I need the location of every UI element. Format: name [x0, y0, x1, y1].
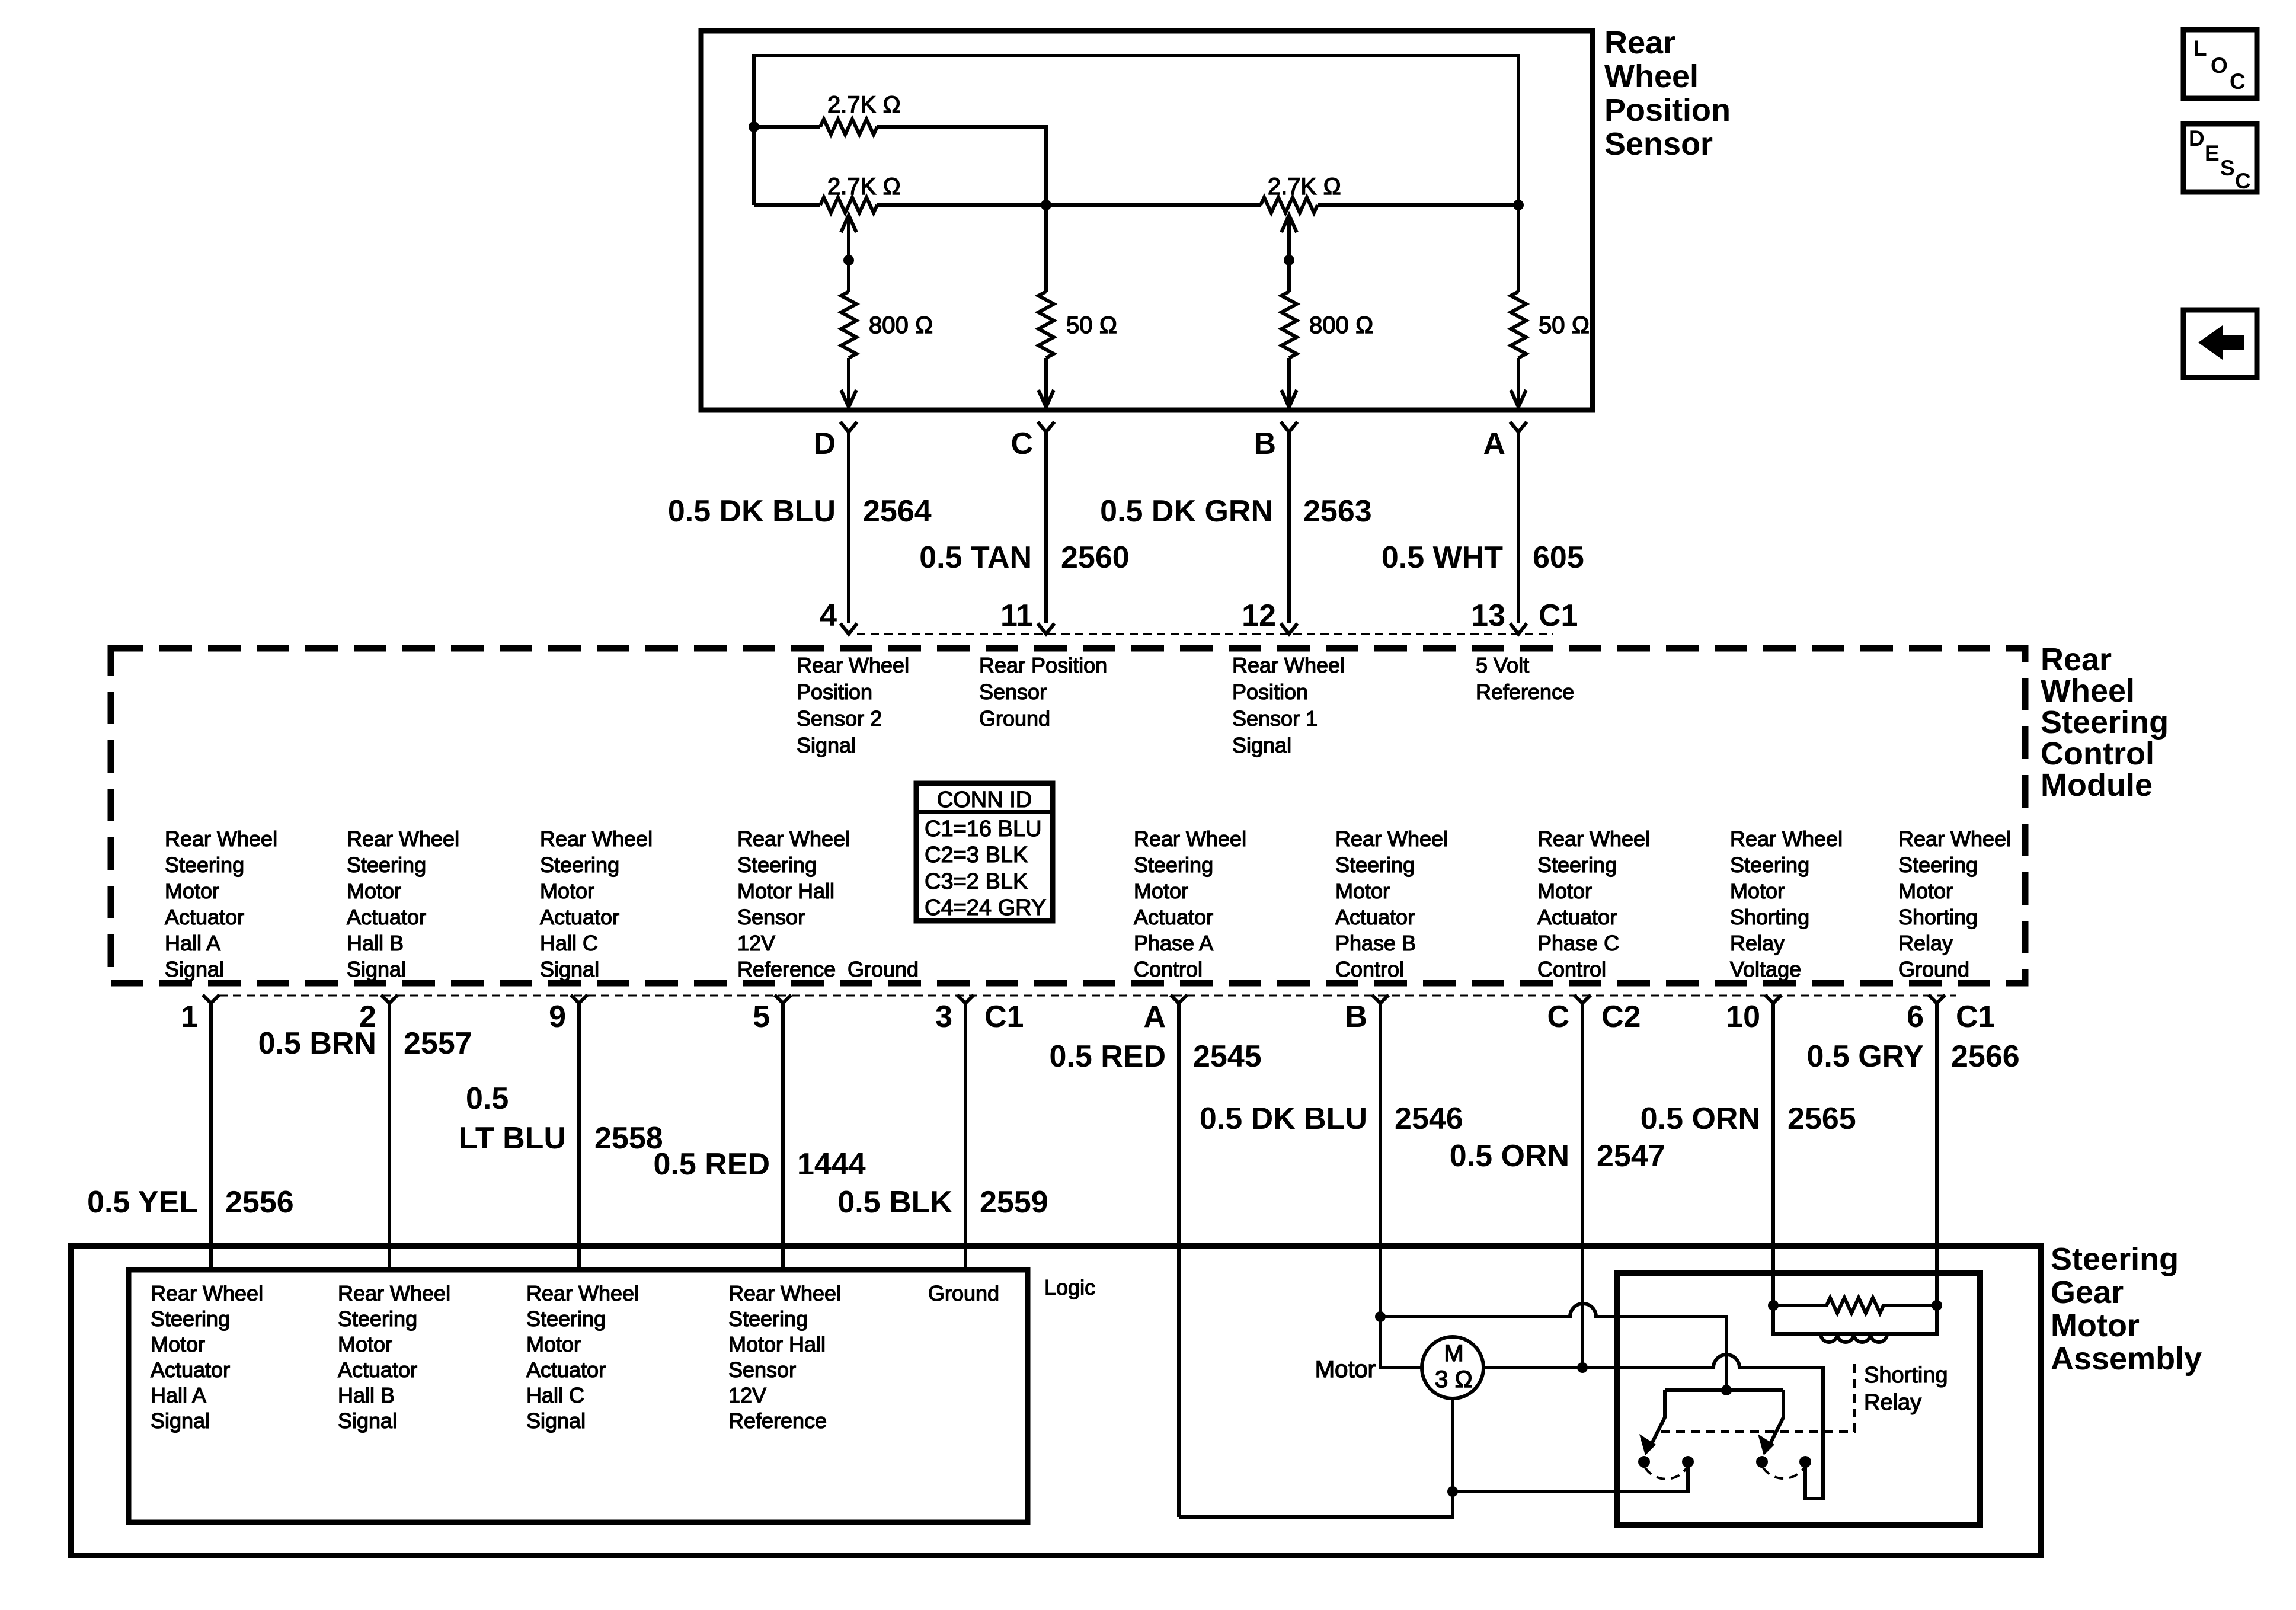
- svg-text:Motor: Motor: [526, 1332, 581, 1356]
- wire: relay switch T-bar: [1665, 1388, 1783, 1392]
- svg-text:Signal: Signal: [797, 733, 856, 757]
- wire: row1 segment right + drop to row2: [877, 127, 1046, 205]
- svg-text:A: A: [1483, 427, 1505, 461]
- wire: phase B to relay common (hops over wire C): [1380, 1304, 1726, 1390]
- svg-text:12: 12: [1242, 598, 1276, 633]
- svg-text:Steering: Steering: [737, 853, 817, 877]
- svg-text:C: C: [1011, 427, 1033, 461]
- wire: C branch lower + down arrow: [1038, 358, 1054, 407]
- node: relay coil left junction: [1768, 1300, 1779, 1311]
- svg-text:Signal: Signal: [526, 1409, 586, 1433]
- svg-text:Rear Wheel: Rear Wheel: [347, 827, 459, 851]
- svg-text:Signal: Signal: [540, 957, 599, 981]
- label: Motor: [1315, 1356, 1376, 1382]
- svg-text:Rear Wheel: Rear Wheel: [1730, 827, 1843, 851]
- svg-text:Rear Wheel: Rear Wheel: [737, 827, 850, 851]
- resistor 2.7K (row2 left): [820, 197, 877, 213]
- node: relay switch common: [1721, 1385, 1732, 1395]
- label: logic pin 9 (RWS Motor Actuator Hall C Signal): [526, 1281, 639, 1433]
- node: switch 1 contact right: [1682, 1456, 1694, 1468]
- wire 2547 (0.5 ORN, pin C to motor assembly): [1450, 1003, 1665, 1368]
- resistor 800 ohm (B branch): [1281, 292, 1297, 358]
- label: pin 13 function (5 Volt Reference): [1476, 653, 1574, 704]
- svg-text:Hall A: Hall A: [165, 931, 220, 955]
- wire 605 (0.5 WHT, A to module pin 13): [1382, 432, 1584, 623]
- node: junction on B wiper: [1284, 255, 1294, 265]
- svg-text:12V: 12V: [737, 931, 775, 955]
- connector pin 3 (module bottom) + C1: [935, 995, 1024, 1034]
- svg-text:A: A: [1143, 1000, 1166, 1034]
- svg-text:Logic: Logic: [1044, 1275, 1095, 1299]
- svg-text:Wheel: Wheel: [2041, 673, 2135, 709]
- label: 2.7K ohm (row1): [827, 92, 901, 118]
- svg-text:Control: Control: [1134, 957, 1203, 981]
- inductor: relay coil: [1773, 1305, 1937, 1342]
- box: Steering Gear Motor Assembly: [71, 1246, 2041, 1555]
- svg-text:Ground: Ground: [1898, 957, 1969, 981]
- label: pin 10 function (RWS Motor Shorting Relay Voltage): [1730, 827, 1843, 981]
- connector pin D (sensor): [813, 422, 857, 461]
- svg-text:Hall A: Hall A: [151, 1383, 206, 1407]
- svg-text:2556: 2556: [225, 1185, 294, 1219]
- wire 2556 (0.5 YEL, pin 1 to logic): [87, 1003, 294, 1270]
- wire 2546 (0.5 DK BLU, pin B to motor assembly): [1200, 1003, 1463, 1317]
- connector pin B (module bottom): [1345, 995, 1389, 1034]
- svg-text:605: 605: [1533, 540, 1584, 575]
- label: Steering Gear Motor Assembly title: [2051, 1241, 2202, 1377]
- label: pin 4 function (Rear Wheel Position Sensor 2 Signal): [797, 653, 909, 757]
- connector pin 11 (module top): [1000, 598, 1054, 634]
- svg-text:Steering: Steering: [1134, 853, 1213, 877]
- svg-text:Rear: Rear: [2041, 642, 2112, 677]
- svg-text:C4=24 GRY: C4=24 GRY: [925, 895, 1046, 920]
- svg-text:4: 4: [820, 598, 837, 633]
- wire: motor right to relay contact (hops over relay common drop): [1582, 1355, 1823, 1499]
- label: pin 5 function (RWS Motor Hall Sensor 12V Reference): [737, 827, 850, 981]
- svg-text:Actuator: Actuator: [165, 905, 244, 929]
- svg-text:Gear: Gear: [2051, 1275, 2124, 1310]
- label: logic pin 5 (RWS Motor Hall Sensor 12V Reference): [728, 1281, 841, 1433]
- wire 2560 (0.5 TAN, C to module pin 11): [919, 432, 1129, 623]
- svg-text:Sensor 1: Sensor 1: [1232, 706, 1318, 731]
- wire: motor bottom lead: [1451, 1398, 1454, 1491]
- svg-text:Control: Control: [2041, 736, 2154, 772]
- svg-text:B: B: [1253, 427, 1276, 461]
- svg-text:Hall C: Hall C: [540, 931, 598, 955]
- label: logic pin 2 (RWS Motor Actuator Hall B Signal): [338, 1281, 450, 1433]
- svg-text:2547: 2547: [1597, 1139, 1665, 1173]
- svg-text:Signal: Signal: [165, 957, 224, 981]
- svg-text:Motor: Motor: [2051, 1308, 2140, 1343]
- label: pin 9 function (RWS Motor Actuator Hall C Signal): [540, 827, 653, 981]
- svg-text:Rear Wheel: Rear Wheel: [1537, 827, 1650, 851]
- svg-text:C: C: [1547, 1000, 1569, 1034]
- svg-text:Rear Wheel: Rear Wheel: [1134, 827, 1246, 851]
- svg-text:0.5 DK GRN: 0.5 DK GRN: [1100, 494, 1273, 529]
- dashed contact arc (switch 1): [1645, 1468, 1687, 1479]
- svg-text:Steering: Steering: [728, 1307, 808, 1331]
- svg-text:Steering: Steering: [540, 853, 619, 877]
- label: pin 3 function (Ground): [848, 957, 919, 981]
- dashed contact arc (switch 2): [1763, 1468, 1804, 1478]
- svg-text:Ground: Ground: [848, 957, 919, 981]
- svg-text:5 Volt: 5 Volt: [1476, 653, 1529, 677]
- svg-text:D: D: [2189, 126, 2205, 151]
- svg-text:Motor: Motor: [338, 1332, 392, 1356]
- connector pin B (sensor): [1253, 422, 1297, 461]
- svg-text:2.7K Ω: 2.7K Ω: [1268, 174, 1341, 200]
- svg-text:C: C: [2230, 69, 2246, 94]
- svg-text:Motor: Motor: [165, 879, 219, 903]
- resistor 50 ohm (A branch): [1511, 292, 1526, 358]
- wire: phase A routing to motor bottom: [1179, 1491, 1453, 1517]
- node: switch 2 contact right: [1799, 1456, 1811, 1468]
- svg-text:Reference: Reference: [737, 957, 836, 981]
- svg-text:Relay: Relay: [1730, 931, 1785, 955]
- svg-text:Ground: Ground: [928, 1281, 999, 1305]
- svg-text:2.7K Ω: 2.7K Ω: [827, 174, 901, 200]
- svg-text:0.5 BLK: 0.5 BLK: [837, 1185, 952, 1219]
- svg-text:Rear Position: Rear Position: [979, 653, 1107, 677]
- svg-text:O: O: [2211, 53, 2228, 78]
- svg-text:C3=2 BLK: C3=2 BLK: [925, 869, 1028, 894]
- connector pin 13 (module top) + C1: [1471, 598, 1578, 634]
- svg-text:C2=3 BLK: C2=3 BLK: [925, 843, 1028, 868]
- svg-text:Steering: Steering: [1537, 853, 1617, 877]
- node: junction motor bottom: [1447, 1486, 1458, 1497]
- svg-text:Voltage: Voltage: [1730, 957, 1801, 981]
- svg-text:E: E: [2205, 141, 2220, 165]
- svg-text:C1=16 BLU: C1=16 BLU: [925, 817, 1042, 841]
- svg-text:Shorting: Shorting: [1864, 1363, 1948, 1388]
- connector pin C (module bottom) + C2: [1547, 995, 1641, 1034]
- svg-text:Rear Wheel: Rear Wheel: [1898, 827, 2011, 851]
- label: pin 6 function (RWS Motor Shorting Relay Ground): [1898, 827, 2011, 981]
- wire 2564 (0.5 DK BLU, D to module pin 4): [668, 432, 932, 623]
- svg-text:Steering: Steering: [526, 1307, 606, 1331]
- wire: B branch lower + down arrow: [1281, 358, 1297, 407]
- svg-text:Steering: Steering: [1898, 853, 1978, 877]
- node: junction phase B / motor left: [1375, 1311, 1386, 1322]
- svg-text:2545: 2545: [1193, 1039, 1262, 1074]
- svg-text:Reference: Reference: [1476, 680, 1574, 704]
- dashed mechanical linkage: [1661, 1363, 1854, 1432]
- svg-text:3: 3: [935, 1000, 952, 1034]
- svg-text:13: 13: [1471, 598, 1505, 633]
- svg-text:0.5: 0.5: [466, 1081, 509, 1116]
- wire: row2 segment middle: [877, 203, 1261, 207]
- svg-text:9: 9: [549, 1000, 566, 1034]
- label: 800 ohm (B): [1309, 312, 1374, 338]
- svg-text:Motor: Motor: [1315, 1356, 1376, 1382]
- label: 50 ohm (A): [1539, 312, 1590, 338]
- connector pin 6 (module bottom) + C1: [1907, 995, 1995, 1034]
- svg-text:2566: 2566: [1951, 1039, 2020, 1074]
- svg-text:Relay: Relay: [1864, 1390, 1921, 1415]
- svg-text:Actuator: Actuator: [1335, 905, 1415, 929]
- svg-text:Phase A: Phase A: [1134, 931, 1213, 955]
- wire 2545 (0.5 RED, pin A to motor assembly): [1049, 1003, 1261, 1517]
- svg-text:0.5 ORN: 0.5 ORN: [1641, 1102, 1760, 1136]
- box: logic block: [129, 1270, 1028, 1522]
- svg-text:Motor: Motor: [347, 879, 401, 903]
- svg-text:Signal: Signal: [1232, 733, 1291, 757]
- resistor 50 ohm (C branch): [1038, 292, 1054, 358]
- svg-text:Phase B: Phase B: [1335, 931, 1416, 955]
- svg-text:Assembly: Assembly: [2051, 1341, 2202, 1377]
- svg-text:Motor: Motor: [1537, 879, 1592, 903]
- icon: LOC box: [2183, 30, 2257, 98]
- connector pin A (sensor): [1483, 422, 1527, 461]
- label: pin 1 function (RWS Motor Actuator Hall A Signal): [165, 827, 277, 981]
- svg-text:Hall B: Hall B: [338, 1383, 395, 1407]
- wire 2566 (0.5 GRY, pin 6 to shorting relay): [1807, 1003, 2020, 1305]
- svg-text:D: D: [813, 427, 836, 461]
- svg-text:CONN ID: CONN ID: [937, 788, 1032, 812]
- svg-text:Rear Wheel: Rear Wheel: [526, 1281, 639, 1305]
- resistor 2.7K (row2 right): [1261, 197, 1318, 213]
- svg-text:Phase C: Phase C: [1537, 931, 1619, 955]
- svg-text:Sensor: Sensor: [1604, 126, 1713, 162]
- label: pin 2 function (RWS Motor Actuator Hall B Signal): [347, 827, 459, 981]
- svg-text:6: 6: [1907, 1000, 1924, 1034]
- wiper arrow up (B branch): [1281, 215, 1297, 232]
- svg-text:Motor: Motor: [1898, 879, 1953, 903]
- svg-text:0.5 BRN: 0.5 BRN: [258, 1026, 376, 1061]
- svg-text:Ground: Ground: [979, 706, 1050, 731]
- wire 2565 (0.5 ORN, pin 10 to shorting relay): [1641, 1003, 1856, 1305]
- connector bar (module top, thin dashed): [857, 633, 1553, 635]
- svg-text:Signal: Signal: [151, 1409, 210, 1433]
- svg-text:0.5 DK BLU: 0.5 DK BLU: [668, 494, 836, 529]
- svg-text:50 Ω: 50 Ω: [1066, 312, 1117, 338]
- label: pin A function (RWS Motor Actuator Phase A Control): [1134, 827, 1246, 981]
- svg-text:Steering: Steering: [338, 1307, 417, 1331]
- wire 2559 (0.5 BLK, pin 3 to logic): [837, 1003, 1048, 1270]
- icon: back arrow box: [2183, 310, 2257, 377]
- svg-text:LT BLU: LT BLU: [459, 1121, 566, 1156]
- svg-text:M: M: [1444, 1340, 1463, 1366]
- connector pin 1 (module bottom): [181, 995, 219, 1034]
- resistor 2.7K (row1): [820, 119, 877, 135]
- svg-text:Rear: Rear: [1604, 25, 1675, 60]
- svg-text:Sensor: Sensor: [979, 680, 1047, 704]
- svg-text:12V: 12V: [728, 1383, 766, 1407]
- connector bar (module bottom, thin dashed): [219, 995, 1956, 997]
- svg-text:2558: 2558: [594, 1121, 663, 1156]
- label: logic pin 3 (Ground): [928, 1281, 999, 1305]
- svg-text:2546: 2546: [1395, 1102, 1463, 1136]
- wire: D wiper branch vertical: [847, 215, 850, 292]
- wiper arrow up (D branch): [841, 215, 856, 232]
- svg-text:Motor Hall: Motor Hall: [728, 1332, 826, 1356]
- node: junction on D wiper: [843, 255, 854, 265]
- svg-text:Reference: Reference: [728, 1409, 827, 1433]
- svg-text:Position: Position: [1604, 92, 1731, 128]
- box: Rear Wheel Position Sensor: [701, 31, 1593, 410]
- svg-text:1: 1: [181, 1000, 198, 1034]
- svg-text:Actuator: Actuator: [1134, 905, 1213, 929]
- svg-text:Wheel: Wheel: [1604, 59, 1699, 94]
- node: switch 2 contact left: [1756, 1456, 1768, 1468]
- label: logic pin 1 (RWS Motor Actuator Hall A Signal): [151, 1281, 263, 1433]
- svg-text:Steering: Steering: [347, 853, 426, 877]
- svg-text:Shorting: Shorting: [1898, 905, 1978, 929]
- svg-text:Steering: Steering: [1335, 853, 1415, 877]
- svg-text:0.5 TAN: 0.5 TAN: [919, 540, 1032, 575]
- svg-text:L: L: [2193, 36, 2207, 60]
- box: Rear Wheel Steering Control Module (dashed): [111, 648, 2025, 983]
- svg-text:0.5 RED: 0.5 RED: [653, 1147, 770, 1182]
- svg-text:Motor: Motor: [1335, 879, 1390, 903]
- svg-text:C2: C2: [1601, 1000, 1641, 1034]
- wire: A branch vertical: [1517, 205, 1520, 292]
- svg-text:Sensor: Sensor: [737, 905, 805, 929]
- svg-text:Motor: Motor: [1134, 879, 1188, 903]
- connector pin 12 (module top): [1242, 598, 1297, 634]
- svg-text:5: 5: [753, 1000, 770, 1034]
- svg-text:Rear Wheel: Rear Wheel: [151, 1281, 263, 1305]
- connector pin 2 (module bottom): [359, 995, 398, 1034]
- svg-text:Sensor: Sensor: [728, 1358, 796, 1382]
- resistor: relay suppression resistor: [1773, 1298, 1937, 1313]
- wire: row2 segment left: [754, 203, 820, 207]
- wire: motor left lead: [1380, 1317, 1422, 1368]
- svg-text:Steering: Steering: [151, 1307, 230, 1331]
- label: Rear Wheel Position Sensor title: [1604, 25, 1731, 162]
- svg-text:2560: 2560: [1061, 540, 1130, 575]
- svg-text:10: 10: [1726, 1000, 1760, 1034]
- svg-text:C1: C1: [1956, 1000, 1995, 1034]
- svg-text:Steering: Steering: [2041, 705, 2169, 740]
- wire: A branch lower + down arrow: [1511, 358, 1526, 407]
- svg-text:C1: C1: [1539, 598, 1578, 633]
- svg-text:50 Ω: 50 Ω: [1539, 312, 1590, 338]
- svg-text:800 Ω: 800 Ω: [1309, 312, 1374, 338]
- svg-text:C: C: [2235, 169, 2251, 193]
- label: 800 ohm (D): [869, 312, 933, 338]
- wire: inner top loop: [754, 56, 1518, 205]
- label: pin 11 function (Rear Position Sensor Ground): [979, 653, 1107, 731]
- wire: B wiper branch vertical: [1287, 215, 1291, 292]
- svg-text:Motor: Motor: [151, 1332, 205, 1356]
- label: 2.7K ohm (row2 left): [827, 174, 901, 200]
- svg-text:Steering: Steering: [165, 853, 244, 877]
- svg-text:Actuator: Actuator: [540, 905, 619, 929]
- wire: motor right lead to wire C node: [1483, 1366, 1582, 1369]
- svg-text:Rear Wheel: Rear Wheel: [1335, 827, 1448, 851]
- svg-text:Rear Wheel: Rear Wheel: [165, 827, 277, 851]
- svg-text:Rear Wheel: Rear Wheel: [797, 653, 909, 677]
- svg-text:Position: Position: [1232, 680, 1308, 704]
- svg-text:Hall C: Hall C: [526, 1383, 584, 1407]
- node: switch 1 contact left: [1638, 1456, 1650, 1468]
- svg-text:Signal: Signal: [347, 957, 406, 981]
- wire 1444 (0.5 RED, pin 5 to logic): [653, 1003, 865, 1270]
- svg-text:0.5 ORN: 0.5 ORN: [1450, 1139, 1569, 1173]
- svg-text:2.7K Ω: 2.7K Ω: [827, 92, 901, 118]
- svg-text:Signal: Signal: [338, 1409, 397, 1433]
- connector pin C (sensor): [1011, 422, 1054, 461]
- svg-text:0.5 DK BLU: 0.5 DK BLU: [1200, 1102, 1367, 1136]
- svg-text:Rear Wheel: Rear Wheel: [540, 827, 653, 851]
- svg-text:Actuator: Actuator: [151, 1358, 230, 1382]
- label: pin 12 function (Rear Wheel Position Sensor 1 Signal): [1232, 653, 1345, 757]
- connector pin 10 (module bottom): [1726, 995, 1782, 1034]
- wire 2563 (0.5 DK GRN, B to module pin 12): [1100, 432, 1372, 623]
- svg-text:Rear Wheel: Rear Wheel: [338, 1281, 450, 1305]
- svg-text:B: B: [1345, 1000, 1367, 1034]
- wire 2557 (0.5 BRN, pin 2 to logic): [258, 1003, 472, 1270]
- svg-text:Position: Position: [797, 680, 872, 704]
- svg-text:Module: Module: [2041, 767, 2153, 803]
- svg-text:Motor: Motor: [540, 879, 594, 903]
- svg-text:Motor: Motor: [1730, 879, 1785, 903]
- connector pin 5 (module bottom): [753, 995, 791, 1034]
- svg-text:Actuator: Actuator: [347, 905, 426, 929]
- svg-text:Actuator: Actuator: [1537, 905, 1617, 929]
- svg-text:800 Ω: 800 Ω: [869, 312, 933, 338]
- svg-text:1444: 1444: [797, 1147, 866, 1182]
- svg-text:3 Ω: 3 Ω: [1435, 1366, 1473, 1393]
- svg-text:Rear Wheel: Rear Wheel: [728, 1281, 841, 1305]
- svg-text:0.5 GRY: 0.5 GRY: [1807, 1039, 1924, 1074]
- svg-text:Steering: Steering: [2051, 1241, 2179, 1277]
- wire: C branch vertical: [1044, 205, 1048, 292]
- connector pin 9 (module bottom): [549, 995, 587, 1034]
- wire: motor bottom to relay contact leg: [1453, 1462, 1688, 1491]
- svg-text:2565: 2565: [1787, 1102, 1856, 1136]
- svg-text:Control: Control: [1335, 957, 1404, 981]
- motor M 3 ohm: [1422, 1337, 1483, 1398]
- node: relay coil right junction: [1932, 1300, 1942, 1311]
- svg-text:Actuator: Actuator: [526, 1358, 606, 1382]
- svg-text:2564: 2564: [863, 494, 932, 529]
- table: CONN ID: [916, 783, 1053, 921]
- svg-text:Shorting: Shorting: [1730, 905, 1809, 929]
- wire: D branch lower + down arrow: [841, 358, 856, 407]
- svg-text:Actuator: Actuator: [338, 1358, 417, 1382]
- svg-text:Relay: Relay: [1898, 931, 1953, 955]
- svg-text:Steering: Steering: [1730, 853, 1809, 877]
- label: Shorting Relay: [1864, 1363, 1948, 1415]
- label: Logic: [1044, 1275, 1095, 1299]
- svg-text:Motor Hall: Motor Hall: [737, 879, 834, 903]
- svg-text:0.5 YEL: 0.5 YEL: [87, 1185, 198, 1219]
- svg-text:Control: Control: [1537, 957, 1606, 981]
- svg-text:S: S: [2220, 156, 2235, 180]
- label: 2.7K ohm (row2 right): [1268, 174, 1341, 200]
- svg-text:Sensor 2: Sensor 2: [797, 706, 882, 731]
- node: junction row2 / A branch: [1513, 200, 1524, 210]
- label: pin C function (RWS Motor Actuator Phase C Control): [1537, 827, 1650, 981]
- icon: DESC box: [2183, 124, 2257, 193]
- svg-text:2559: 2559: [980, 1185, 1048, 1219]
- node: junction row2 / C branch: [1041, 200, 1051, 210]
- label: pin B function (RWS Motor Actuator Phase B Control): [1335, 827, 1448, 981]
- resistor 800 ohm (D branch): [841, 292, 856, 358]
- connector pin 4 (module top): [820, 598, 857, 634]
- svg-text:C1: C1: [984, 1000, 1024, 1034]
- svg-text:0.5 RED: 0.5 RED: [1049, 1039, 1166, 1074]
- svg-text:Rear Wheel: Rear Wheel: [1232, 653, 1345, 677]
- node: junction left vertical / row1: [749, 121, 759, 132]
- wire: row2 segment right: [1318, 203, 1518, 207]
- switch arm 2 (with arrow): [1758, 1390, 1783, 1455]
- svg-text:2557: 2557: [404, 1026, 472, 1061]
- wire: row1 segment left: [754, 125, 820, 129]
- box: shorting relay: [1617, 1273, 1980, 1525]
